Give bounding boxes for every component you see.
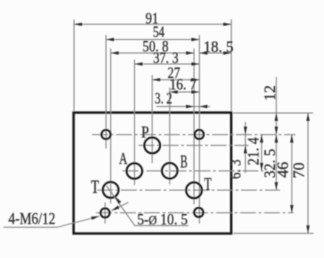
svg-text:P: P (141, 123, 149, 142)
dimension 50.8 line (111, 52, 194, 54)
extension/centerline port P column (151, 75, 153, 163)
dimension 3.2 leader line (157, 106, 211, 108)
svg-text:46: 46 (275, 162, 292, 178)
dimension 16.7 line (170, 91, 200, 93)
dimension 6.3 line (244, 122, 246, 173)
dimension 18.5 line (199, 52, 231, 54)
dimension 27 line (152, 79, 199, 81)
extension/centerline T-left column (110, 49, 112, 204)
extension line bottom edge right (70/46 dims) (233, 232, 314, 234)
centerline T ports row (97, 189, 280, 191)
port T left hole (103, 182, 119, 198)
callout 5-O10.5 underline (135, 225, 189, 227)
centerline ports A/B row (123, 170, 264, 172)
dimension 46 line (291, 135, 293, 213)
port B hole (162, 163, 178, 179)
port P hole (144, 138, 160, 154)
extension line top edge right (70/12 dims) (233, 112, 313, 114)
dimension 70 line (307, 113, 309, 233)
extension/centerline port B column (169, 88, 171, 185)
svg-text:21. 4: 21. 4 (246, 137, 263, 165)
extension line right edge (91 dim) (230, 20, 232, 112)
dimension 32.5 arrows (275, 135, 278, 143)
svg-text:16. 7: 16. 7 (170, 76, 197, 93)
svg-text:4-M6/12: 4-M6/12 (8, 209, 55, 228)
extension/centerline left M6 column (105, 35, 107, 149)
svg-text:12: 12 (262, 85, 279, 101)
extension line left edge (91 dim) (73, 20, 75, 112)
dimension 91 line (74, 23, 231, 25)
svg-text:6. 3: 6. 3 (227, 159, 244, 179)
callout 5-O10.5 leader arrow into T hole (106, 186, 135, 226)
M6 mounting hole bottom-left (101, 208, 110, 217)
callout second leader arrow at bottom-left M6 (112, 202, 129, 210)
M6 mounting hole top-left (101, 130, 110, 139)
port T right hole (186, 182, 202, 198)
svg-text:B: B (180, 152, 187, 172)
svg-text:T: T (204, 174, 211, 194)
M6 mounting hole bottom-right (194, 208, 203, 217)
extension/centerline port A column (134, 60, 136, 186)
centerline top M6 row (92, 134, 296, 136)
dimension 21.4 line (261, 135, 263, 171)
valve mounting plate outline (74, 113, 232, 234)
svg-text:3. 2: 3. 2 (155, 91, 172, 108)
callout 4-M6/12 underline (4, 226, 58, 228)
centerline bottom-left M6 vertical (104, 203, 106, 224)
svg-text:A: A (119, 149, 128, 168)
dimension 54 line (106, 39, 199, 41)
extension/centerline right M6 column (198, 35, 200, 224)
extension/centerline T-right column (193, 49, 195, 205)
M6 mounting hole top-right (195, 130, 204, 139)
port A hole (127, 163, 143, 179)
dimension 37.3 line (135, 63, 200, 65)
centerline bottom M6 row (96, 212, 294, 214)
svg-text:70: 70 (291, 162, 308, 178)
svg-text:18. 5: 18. 5 (204, 39, 234, 56)
svg-text:T: T (91, 178, 99, 198)
callout 4-M6/12 leader arrow (57, 216, 99, 227)
dimension 12 / 32.5 shared line (275, 77, 277, 190)
centerline port P row (139, 144, 249, 146)
dimension 12 arrows (275, 113, 278, 121)
